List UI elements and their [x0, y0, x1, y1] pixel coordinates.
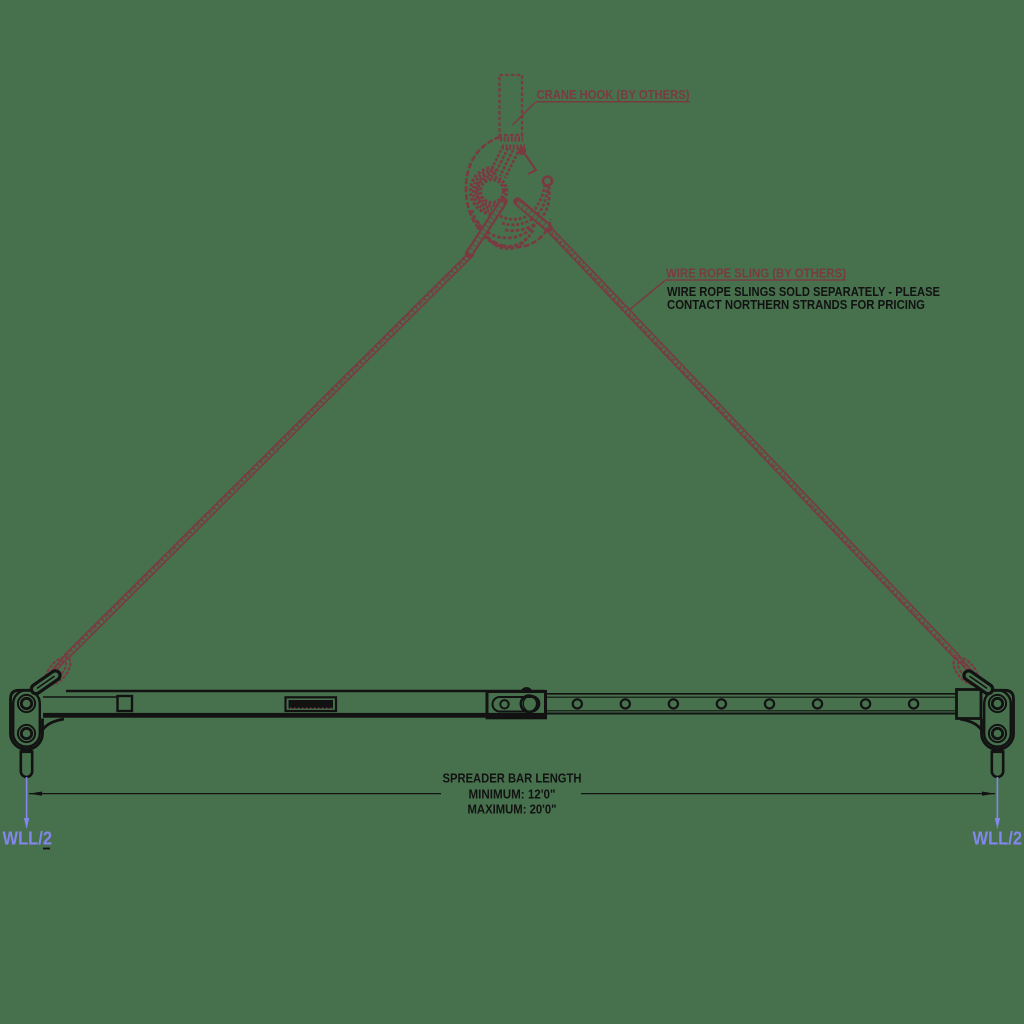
svg-text:WLL/2: WLL/2	[3, 829, 53, 849]
svg-text:MAXIMUM: 20'0": MAXIMUM: 20'0"	[468, 802, 557, 817]
svg-text:SPREADER BAR LENGTH: SPREADER BAR LENGTH	[443, 771, 582, 786]
svg-text:CONTACT NORTHERN STRANDS FOR P: CONTACT NORTHERN STRANDS FOR PRICING	[667, 297, 925, 312]
svg-text:WIRE ROPE SLING (BY OTHERS): WIRE ROPE SLING (BY OTHERS)	[666, 266, 846, 281]
svg-text:CRANE HOOK (BY OTHERS): CRANE HOOK (BY OTHERS)	[537, 87, 690, 102]
svg-text:MINIMUM: 12'0": MINIMUM: 12'0"	[469, 787, 556, 802]
svg-text:WLL/2: WLL/2	[973, 829, 1023, 849]
